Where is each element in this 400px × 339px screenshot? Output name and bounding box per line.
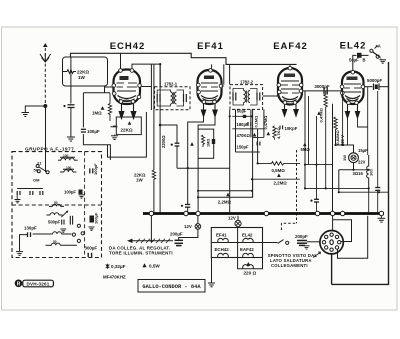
svg-text:1W: 1W (78, 75, 86, 80)
svg-text:B: B (363, 58, 366, 63)
zoccolo dashed outline (281, 223, 297, 230)
svg-text:R: R (17, 281, 21, 287)
svg-text:50: 50 (54, 201, 58, 205)
resistor 22K 1W vertical (152, 170, 155, 181)
logo badge circle (15, 280, 23, 288)
svg-text:COLLEGAMENTI: COLLEGAMENTI (271, 263, 308, 268)
svg-text:DVH-3261: DVH-3261 (26, 281, 49, 286)
wire EAF42 grid up (289, 64, 291, 66)
resistor 0,47M vertical (324, 95, 327, 113)
wire cap to rail (177, 146, 230, 168)
ECH42 pin circles (112, 69, 141, 104)
box 22K cathode (116, 117, 141, 135)
AVC wire (198, 158, 253, 212)
ground (22K) (111, 125, 118, 128)
svg-text:3000pF: 3000pF (314, 84, 329, 89)
wire lamp right stubs (237, 216, 239, 228)
vertical x342 (342, 89, 344, 146)
svg-text:1782-1: 1782-1 (164, 82, 178, 87)
wire x316 (316, 116, 318, 212)
gruppo AF dashed box (12, 152, 102, 258)
svg-text:0,1MΩ: 0,1MΩ (254, 116, 259, 128)
cap 180a (243, 115, 246, 118)
ECH42 internals (117, 76, 138, 102)
label 1M arrow (101, 106, 105, 110)
vertical x367 (368, 87, 369, 213)
osc switch circles (72, 224, 84, 242)
capacitor 100uF (osc) (81, 129, 86, 132)
gruppo bottom caps (17, 191, 43, 195)
antenna (40, 48, 51, 104)
svg-text:150pF: 150pF (237, 145, 250, 150)
wire heaterbox down (211, 258, 213, 283)
ground (gruppo 100uF) (79, 195, 85, 198)
dot 0,32 (106, 264, 110, 269)
IF1 wires bottom (157, 102, 183, 106)
resistor tick 22K (63, 70, 77, 74)
arrow 5M (303, 143, 307, 147)
volume resistor 0,5M (266, 162, 300, 166)
junction antenna node (43, 104, 47, 108)
ground (tone switch) (379, 59, 386, 64)
heater bump EL42 (243, 238, 253, 242)
svg-text:100µF: 100µF (87, 129, 100, 134)
switch contact A (370, 49, 373, 52)
svg-text:0,47MΩ: 0,47MΩ (263, 116, 268, 130)
heater box dividers (211, 228, 262, 258)
svg-text:1MΩ: 1MΩ (92, 111, 102, 116)
band switch contacts (36, 165, 49, 174)
resistor 4,7K vertical (273, 126, 276, 140)
svg-text:220 Ω: 220 Ω (244, 270, 257, 275)
heater bump ECH42 (218, 253, 229, 257)
wire antenna into gruppo box (45, 106, 47, 172)
arrow 0,5M (277, 173, 281, 177)
tone capacitor 50uF (357, 53, 362, 58)
IF2 wires (233, 89, 257, 106)
capacitor 200pF (297, 241, 307, 246)
logo badge box (23, 280, 54, 287)
label in box vertical (202, 135, 205, 147)
capacitor 5000pF (374, 84, 380, 91)
switch contact B (376, 55, 379, 58)
svg-text:A: A (378, 44, 381, 49)
svg-text:50: 50 (34, 168, 39, 173)
EF41 grid network box (198, 129, 214, 158)
ground (heater) (208, 283, 215, 287)
svg-text:EL42: EL42 (340, 41, 367, 52)
switch circle (286, 241, 289, 244)
pilot lamp (349, 153, 359, 163)
resistor 0,82M vertical (334, 117, 337, 132)
svg-text:22V: 22V (358, 160, 366, 165)
triangle 0,5W (142, 263, 146, 267)
antenna coil 1 (58, 157, 78, 160)
caps row wire (17, 188, 43, 190)
IF2 capacitor right (257, 93, 260, 101)
top bus rail (71, 53, 297, 64)
svg-text:EAF42: EAF42 (240, 247, 254, 252)
svg-text:200pF: 200pF (295, 234, 308, 239)
heater box (211, 228, 262, 258)
triangle 220 (246, 262, 250, 266)
wire IF2 to EAF42 (263, 95, 278, 97)
gruppo ground right (89, 227, 95, 230)
osc coil 4 (46, 243, 78, 245)
svg-text:EF41: EF41 (197, 41, 224, 52)
svg-text:50: 50 (53, 240, 57, 244)
trimmer cap diagonal (61, 211, 67, 217)
wire cap to switch (362, 54, 369, 56)
svg-text:100pF: 100pF (93, 163, 98, 175)
socket pins (322, 233, 341, 251)
wire right column to socket (338, 216, 368, 259)
svg-text:180pF: 180pF (237, 122, 250, 127)
svg-text:15µF: 15µF (358, 148, 368, 153)
svg-text:5000pF: 5000pF (367, 78, 382, 83)
svg-text:100µF: 100µF (64, 190, 76, 195)
cap 180b (248, 122, 251, 126)
small arrow mid (190, 142, 194, 146)
IF1 wires top (157, 90, 183, 94)
aerial coupling box 22K 1W (63, 57, 108, 86)
svg-text:2200Ω: 2200Ω (161, 135, 166, 148)
osc coil 1 (49, 204, 64, 206)
bus junction circles (149, 211, 383, 215)
svg-text:2,2MΩ: 2,2MΩ (274, 181, 288, 186)
svg-text:EL42: EL42 (242, 233, 253, 238)
svg-text:1782-2: 1782-2 (240, 80, 254, 85)
wire socket right up (333, 220, 352, 242)
osc coil 2 (47, 213, 63, 215)
capacitor 300uF bottom (88, 253, 91, 257)
wire heaterbox to switch (263, 241, 278, 243)
ground (antenna) (22, 113, 30, 117)
IF1 capacitor right (184, 94, 187, 102)
osc section left wire loop (83, 93, 110, 160)
right column vertical a (304, 91, 306, 188)
IF transformer 1782-2 box (230, 85, 263, 110)
EF41 pin circles (197, 69, 223, 104)
ground (input cap) (67, 137, 75, 141)
wire 130pF left ground (20, 235, 28, 251)
capacitor 3000pF (324, 88, 327, 95)
antenna coil 2 (60, 169, 76, 172)
lamp wires (336, 132, 354, 192)
EF41 internals (201, 76, 218, 101)
switch to socket (278, 240, 284, 244)
wire IF1 feed down (159, 64, 161, 87)
flexible wire arrowhead (127, 239, 133, 243)
capacitor 100uF right2 (90, 216, 95, 223)
svg-text:EF41: EF41 (216, 233, 227, 238)
right rail long wire (332, 62, 389, 284)
gruppo ground mid (60, 229, 66, 232)
tube EAF42 envelope (278, 68, 302, 105)
arrow 470K (253, 133, 257, 137)
B+ vertical 1 (153, 64, 155, 212)
capacitor right low (375, 188, 380, 191)
socket circle (320, 231, 343, 254)
right column vertical b (308, 96, 310, 165)
svg-text:0,5W: 0,5W (149, 264, 160, 269)
wire cap to ground (70, 108, 72, 137)
svg-text:50µF: 50µF (349, 58, 359, 63)
svg-text:10KpF: 10KpF (285, 126, 298, 131)
svg-text:100µF: 100µF (94, 212, 99, 224)
wire diode row1 (232, 115, 251, 117)
wire ECH42 grid up to rail (120, 53, 122, 69)
wire tube left to osc (105, 87, 114, 93)
wire socket bottom loop (331, 254, 333, 285)
dashed wire to socket (296, 150, 298, 223)
dropper resistor vertical (367, 155, 369, 192)
svg-text:22KΩ: 22KΩ (77, 70, 89, 75)
svg-text:12V: 12V (228, 216, 236, 221)
capacitor dot (63, 105, 65, 107)
IF1 core (172, 92, 174, 104)
svg-text:GALLO-CONDOR - 84A: GALLO-CONDOR - 84A (142, 284, 201, 290)
wire EF41 cathode down (188, 116, 215, 203)
capacitor x316 (314, 199, 319, 202)
svg-text:50µF: 50µF (237, 108, 247, 113)
plate coupling wire EAF42-EL42 (302, 90, 341, 92)
wire 5000pF to right rail (379, 86, 389, 88)
svg-text:ECH42: ECH42 (110, 41, 146, 52)
EAF42 pin circles (277, 66, 303, 104)
wire rows right (305, 165, 389, 193)
svg-text:300µF: 300µF (85, 246, 98, 251)
IF2 secondary coil (248, 91, 250, 103)
wire EF41 grid up (211, 64, 213, 69)
tube EL42 envelope (342, 72, 364, 105)
svg-text:0,32µF: 0,32µF (111, 264, 126, 269)
svg-text:200µF: 200µF (170, 232, 183, 237)
wire under 22K box (122, 113, 134, 117)
EL42 pin circles (340, 70, 365, 104)
IF1 secondary coil (175, 92, 177, 104)
EF41 cathode arrows (201, 104, 217, 117)
gruppo coil tiny labels (53, 154, 72, 244)
wire 163 left stub (253, 163, 266, 197)
pilot lamp 12V right (235, 220, 241, 226)
svg-text:1MΩ: 1MΩ (207, 139, 211, 147)
capacitor EF41 cathode (185, 205, 190, 208)
ground (22K box) bars (111, 135, 118, 140)
IF1 primary coil (171, 92, 173, 104)
ground (bus end) (378, 216, 386, 222)
heater bump EF41 (218, 238, 229, 242)
gruppo small caps (62, 216, 73, 225)
EL42 cathode arrows (345, 105, 359, 119)
capacitor mid decoupling (175, 143, 180, 146)
cap 10KpF (280, 126, 283, 130)
flexible wire to dial lamps (130, 239, 173, 243)
wire ECH42 top to rail2 (131, 64, 133, 69)
EL42 internals (344, 77, 361, 101)
label A arrow (375, 46, 378, 49)
wire socket top to bus (332, 216, 334, 231)
socket center key (330, 240, 333, 245)
svg-text:ECH42: ECH42 (215, 247, 230, 252)
wire row 179 (253, 178, 300, 180)
svg-text:1W: 1W (342, 155, 347, 161)
wire antenna to ground (25, 106, 45, 112)
switch lever (373, 52, 381, 58)
wire EL42 top to tone cap (353, 55, 357, 70)
svg-text:130pF: 130pF (24, 226, 37, 231)
wire 200pF to socket (307, 241, 320, 243)
cap beside box (212, 139, 215, 144)
plate wire to 5000pF (364, 86, 373, 88)
antenna arrow tip (43, 43, 48, 47)
lamp bottom to resistor (354, 169, 369, 171)
wire box top (207, 120, 230, 130)
svg-text:EAF42: EAF42 (273, 41, 308, 52)
svg-text:21: 21 (37, 161, 42, 166)
vertical x3325 (332, 104, 334, 213)
svg-text:470KΩ: 470KΩ (237, 133, 251, 138)
svg-text:1W: 1W (136, 178, 143, 183)
wire bus drop to flexible (150, 216, 152, 241)
EAF42 cathode arrows (282, 105, 298, 117)
ground (caps row) (15, 195, 21, 203)
AVC arrow (226, 193, 230, 197)
svg-text:0,47MΩ: 0,47MΩ (319, 107, 324, 122)
tube ECH42 envelope (114, 70, 141, 105)
gruppo divider dashed (84, 152, 86, 258)
IF transformer 1782-1 box (155, 87, 191, 110)
osc coil 3 (33, 232, 72, 234)
wire left drop x107 (108, 112, 147, 157)
capacitor 130pF (28, 232, 31, 237)
ECH42 cathode arrows (119, 104, 136, 119)
IF1 capacitor left (157, 94, 160, 102)
wire plate feed down (142, 64, 152, 110)
wire rail drop to IF2 (229, 64, 231, 84)
svg-text:3Ω16: 3Ω16 (353, 171, 364, 176)
gallo condor box (138, 280, 205, 293)
B+ vertical 2 (159, 64, 161, 212)
svg-text:12V: 12V (184, 224, 192, 229)
svg-text:500pF: 500pF (48, 219, 61, 224)
vertical x347 cathode (348, 116, 368, 145)
wire osc cap drop (70, 57, 72, 104)
resistor 220 box (238, 258, 263, 269)
wire cap right low (377, 91, 379, 212)
capacitor (antenna series) (68, 105, 75, 108)
arrow mid right (317, 111, 321, 115)
wire cap to bus (187, 202, 189, 212)
second rail (132, 63, 161, 65)
cap sym 100uF box (79, 190, 83, 195)
EAF42 internals (281, 74, 299, 102)
wire heater box left to ground (208, 252, 213, 283)
svg-text:MF470KHZ: MF470KHZ (103, 275, 126, 280)
cap 150 (257, 142, 260, 146)
wire lamp left (179, 216, 198, 240)
svg-text:5MΩ: 5MΩ (301, 147, 311, 152)
wire rail drop to IF2 left (222, 64, 224, 86)
heater bump EAF42 (243, 253, 254, 257)
svg-text:OM: OM (33, 178, 40, 183)
svg-text:TORE ILLUMIN. STRUMENTI: TORE ILLUMIN. STRUMENTI (109, 250, 173, 255)
capacitor 100uF gruppo (90, 168, 93, 173)
svg-text:22KΩ: 22KΩ (121, 128, 133, 133)
IF2 core (246, 91, 248, 103)
22K arrow mark (128, 121, 132, 125)
pilot lamp 12V left (195, 224, 201, 230)
grid stopper line (325, 91, 327, 95)
diode column verticals (230, 109, 264, 212)
tube EF41 envelope (198, 70, 222, 104)
capacitor 200uF (175, 240, 184, 245)
heavy ground bus (143, 212, 384, 215)
svg-text:100: 100 (66, 166, 72, 170)
resistor 1M vertical (108, 93, 111, 121)
IF2 capacitor left (233, 93, 236, 101)
ground (gruppo left) (16, 252, 23, 256)
svg-text:100: 100 (63, 154, 69, 158)
wire 0,47M down (325, 112, 327, 188)
IF2 primary coil (244, 91, 246, 103)
svg-text:0,5MΩ: 0,5MΩ (272, 168, 286, 173)
